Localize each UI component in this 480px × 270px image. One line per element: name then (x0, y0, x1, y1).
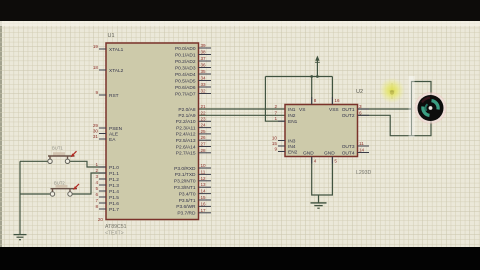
svg-text:35: 35 (201, 69, 207, 74)
svg-text:P0.3/AD3: P0.3/AD3 (175, 65, 196, 71)
svg-text:P1.7: P1.7 (109, 207, 119, 213)
svg-text:23: 23 (201, 116, 207, 121)
svg-text:30: 30 (93, 129, 99, 134)
svg-text:RST: RST (109, 93, 119, 99)
svg-text:3: 3 (95, 174, 98, 179)
svg-text:28: 28 (201, 148, 207, 153)
svg-text:OUT2: OUT2 (342, 113, 355, 119)
svg-text:6: 6 (359, 110, 362, 115)
svg-text:7: 7 (274, 110, 277, 115)
svg-text:25: 25 (201, 129, 207, 134)
svg-text:19: 19 (93, 44, 99, 49)
svg-text:P1.3: P1.3 (109, 183, 119, 189)
svg-text:AT89C51: AT89C51 (105, 224, 127, 230)
svg-text:U2: U2 (356, 89, 363, 95)
svg-text:P3.7/RD: P3.7/RD (177, 211, 196, 217)
svg-text:OUT4: OUT4 (342, 150, 355, 156)
svg-text:8: 8 (314, 98, 317, 103)
svg-text:31: 31 (93, 134, 99, 139)
svg-text:XTAL1: XTAL1 (109, 47, 124, 53)
svg-text:10: 10 (201, 163, 207, 168)
svg-text:U1: U1 (108, 33, 115, 39)
svg-text:IN3: IN3 (288, 138, 296, 144)
svg-text:VSS: VSS (329, 107, 339, 113)
svg-text:IN1: IN1 (288, 107, 296, 113)
svg-text:P3.2/INT0: P3.2/INT0 (174, 179, 196, 185)
svg-text:P0.5/AD5: P0.5/AD5 (175, 78, 196, 84)
svg-text:27: 27 (201, 142, 207, 147)
svg-text:5: 5 (95, 186, 98, 191)
svg-text:21: 21 (201, 104, 207, 109)
svg-text:ALE: ALE (109, 131, 118, 137)
svg-text:29: 29 (93, 123, 99, 128)
svg-text:P0.0/AD0: P0.0/AD0 (175, 46, 196, 52)
svg-text:3: 3 (359, 104, 362, 109)
svg-text:16: 16 (201, 201, 207, 206)
svg-text:10: 10 (272, 136, 278, 141)
svg-text:4: 4 (95, 180, 98, 185)
svg-text:P2.4/A12: P2.4/A12 (176, 132, 196, 138)
svg-text:EA: EA (109, 137, 116, 143)
svg-text:IN2: IN2 (288, 113, 296, 119)
svg-text:P3.4/T0: P3.4/T0 (179, 191, 196, 197)
svg-text:5: 5 (334, 159, 337, 164)
svg-text:P2.6/A14: P2.6/A14 (176, 144, 196, 150)
svg-text:P2.3/A11: P2.3/A11 (176, 125, 196, 131)
svg-text:OUT3: OUT3 (342, 144, 355, 150)
svg-text:11: 11 (359, 141, 364, 146)
svg-text:11: 11 (201, 169, 206, 174)
svg-text:BUT2: BUT2 (54, 181, 65, 186)
svg-text:L293D: L293D (356, 170, 372, 176)
svg-text:IN4: IN4 (288, 144, 296, 150)
svg-text:GND: GND (303, 150, 314, 156)
svg-text:P2.1/A9: P2.1/A9 (178, 113, 195, 119)
svg-text:P0.4/AD4: P0.4/AD4 (175, 72, 196, 78)
svg-text:P1.4: P1.4 (109, 189, 119, 195)
svg-text:P0.1/AD1: P0.1/AD1 (175, 52, 196, 58)
svg-text:<TEXT>: <TEXT> (105, 231, 124, 237)
svg-text:PSEN: PSEN (109, 126, 123, 132)
svg-text:OUT1: OUT1 (342, 107, 355, 113)
svg-text:P2.2/A10: P2.2/A10 (176, 119, 196, 125)
svg-text:P1.6: P1.6 (109, 201, 119, 207)
svg-text:13: 13 (201, 182, 207, 187)
svg-text:20: 20 (98, 217, 104, 222)
svg-text:P1.1: P1.1 (109, 171, 119, 177)
svg-text:P3.0/RXD: P3.0/RXD (174, 166, 196, 172)
svg-text:P3.1/TXD: P3.1/TXD (175, 172, 196, 178)
svg-text:24: 24 (201, 123, 207, 128)
svg-text:36: 36 (201, 63, 207, 68)
svg-text:26: 26 (201, 135, 207, 140)
svg-text:4: 4 (314, 159, 317, 164)
svg-text:37: 37 (201, 56, 207, 61)
svg-text:12: 12 (201, 176, 207, 181)
svg-text:1: 1 (274, 116, 277, 121)
svg-text:39: 39 (201, 43, 207, 48)
svg-text:16: 16 (334, 98, 340, 103)
svg-text:8: 8 (95, 204, 98, 209)
svg-text:9: 9 (274, 147, 277, 152)
svg-text:P3.6/WR: P3.6/WR (176, 204, 196, 210)
svg-text:18: 18 (93, 65, 99, 70)
svg-text:32: 32 (201, 89, 207, 94)
svg-text:34: 34 (201, 76, 207, 81)
svg-text:BUT1: BUT1 (52, 146, 63, 151)
svg-text:14: 14 (359, 148, 365, 153)
svg-text:1: 1 (95, 162, 98, 167)
svg-text:2: 2 (274, 104, 277, 109)
svg-text:XTAL2: XTAL2 (109, 68, 124, 74)
svg-text:14: 14 (201, 189, 207, 194)
svg-text:2: 2 (95, 168, 98, 173)
svg-text:9: 9 (95, 90, 98, 95)
svg-text:6: 6 (95, 192, 98, 197)
svg-text:P0.6/AD6: P0.6/AD6 (175, 85, 196, 91)
svg-text:15: 15 (201, 195, 207, 200)
svg-text:P1.5: P1.5 (109, 195, 119, 201)
svg-text:38: 38 (201, 50, 207, 55)
svg-text:P1.2: P1.2 (109, 177, 119, 183)
svg-text:P3.5/T1: P3.5/T1 (179, 198, 196, 204)
svg-text:15: 15 (272, 141, 278, 146)
svg-text:P0.2/AD2: P0.2/AD2 (175, 59, 196, 65)
svg-text:P2.5/A13: P2.5/A13 (176, 138, 196, 144)
svg-text:P3.3/INT1: P3.3/INT1 (174, 185, 196, 191)
svg-text:33: 33 (201, 82, 207, 87)
svg-text:GND: GND (324, 150, 335, 156)
svg-text:EN2: EN2 (288, 149, 298, 155)
svg-text:7: 7 (95, 198, 98, 203)
svg-text:17: 17 (201, 208, 207, 213)
svg-text:P0.7/AD7: P0.7/AD7 (175, 91, 196, 97)
svg-text:VS: VS (299, 107, 305, 113)
svg-text:22: 22 (201, 110, 207, 115)
svg-text:P2.0/A8: P2.0/A8 (178, 107, 195, 113)
svg-text:EN1: EN1 (288, 119, 298, 125)
svg-text:P1.0: P1.0 (109, 165, 119, 171)
svg-text:P2.7/A15: P2.7/A15 (176, 151, 196, 157)
